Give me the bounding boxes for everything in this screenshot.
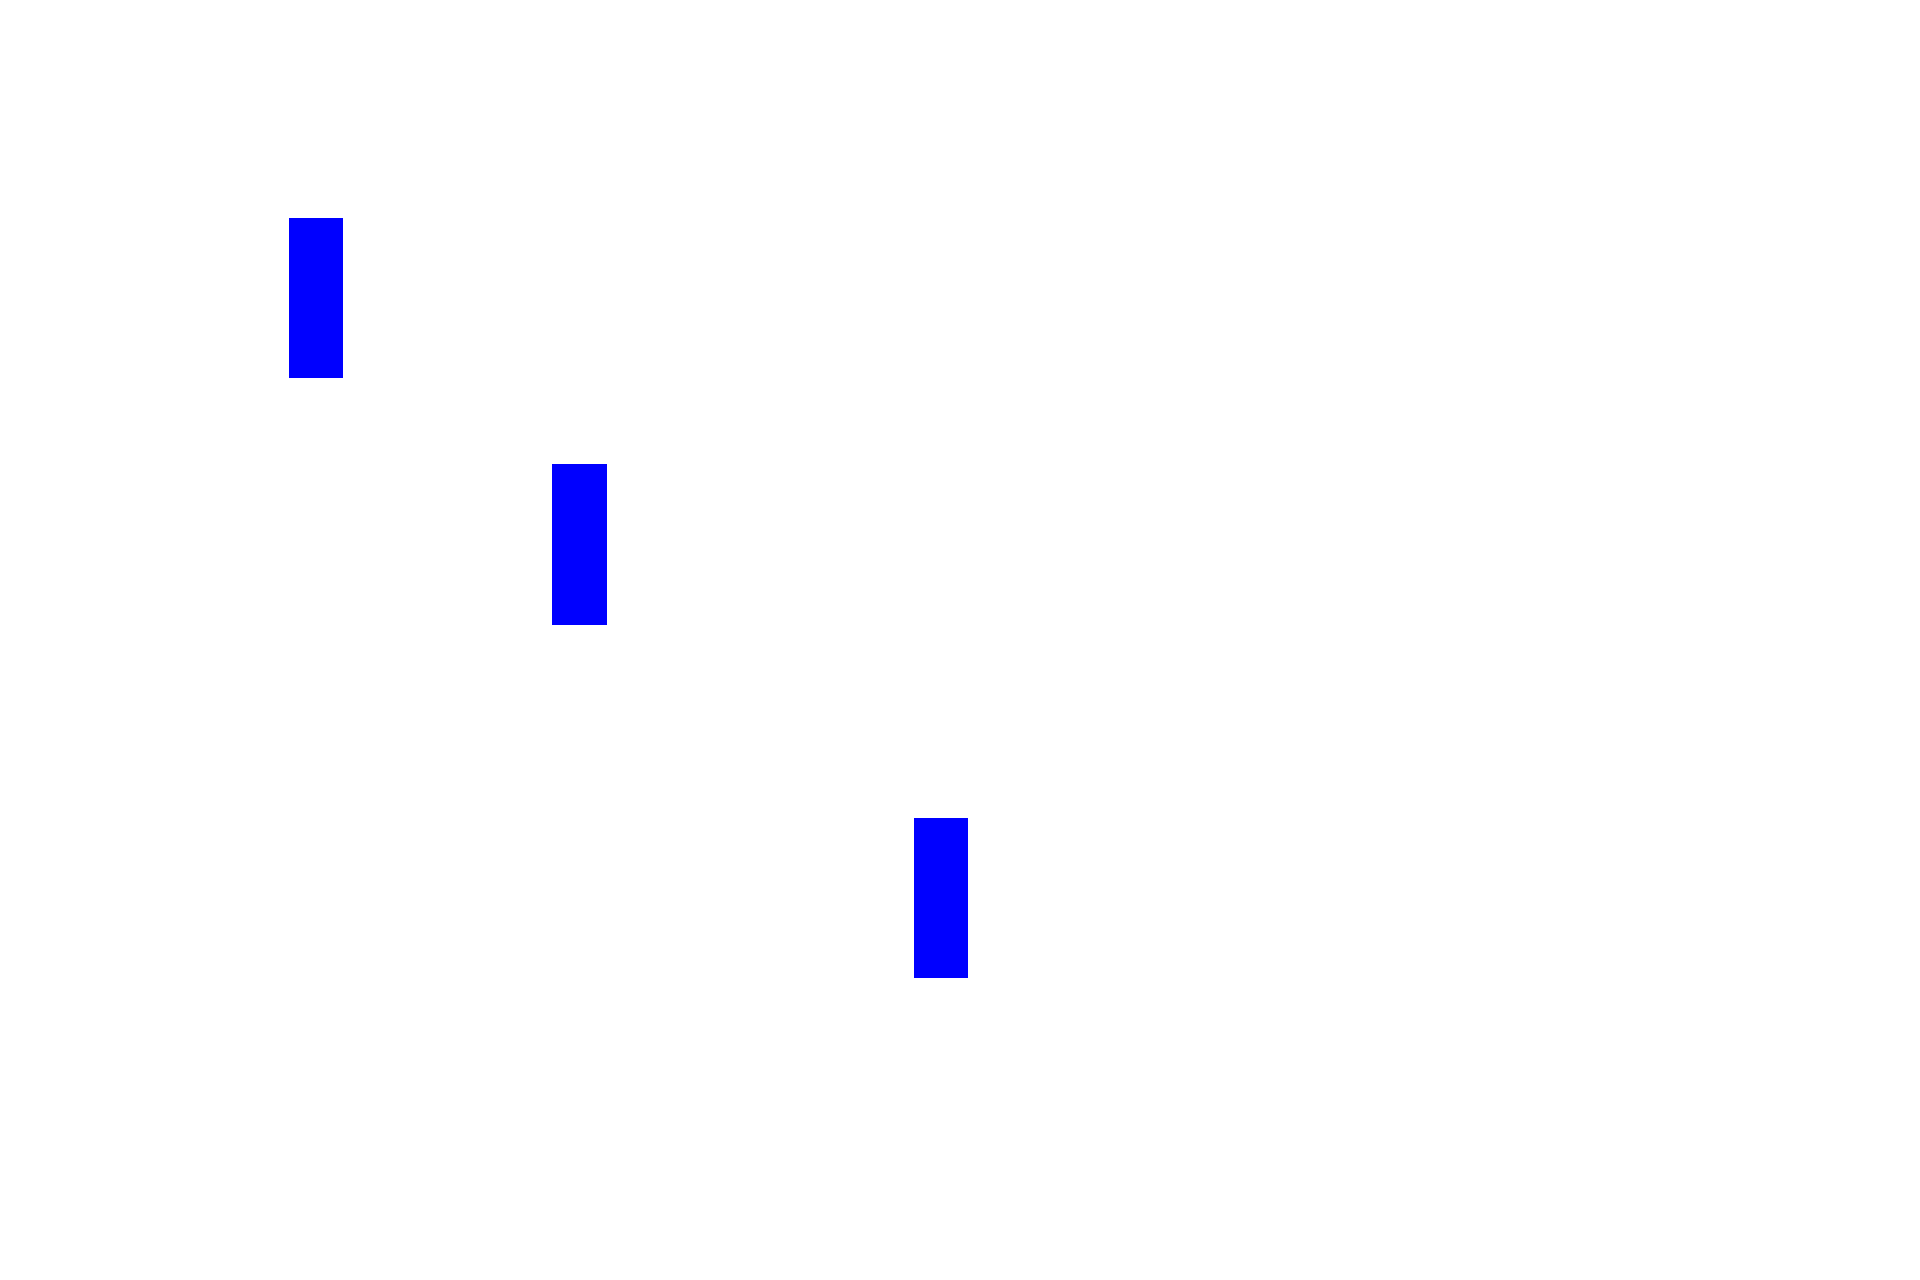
bar 1 (top-left blue bar) bbox=[289, 218, 343, 378]
bar 3 (bottom-right blue bar) bbox=[914, 818, 968, 978]
bar 2 (middle blue bar) bbox=[552, 464, 607, 625]
